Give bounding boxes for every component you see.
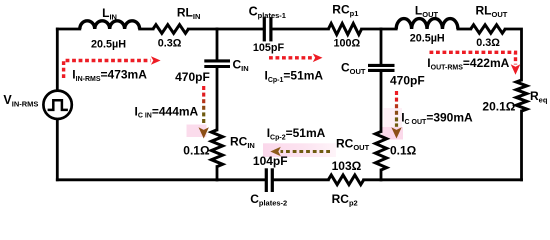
resistor RL_IN [153,25,188,34]
svg-text:20.1Ω: 20.1Ω [482,100,515,114]
arrowhead I_IN-RMS [151,56,161,65]
wire RC_IN to bottom rail [216,167,219,180]
wire between L_IN and RL_IN [140,28,153,31]
wire RL_IN to C_plates-1 (through node A) [188,28,262,31]
svg-text:470pF: 470pF [390,74,425,88]
svg-text:0.1Ω: 0.1Ω [390,143,417,157]
wire top rail segment 1 [57,28,80,31]
resistor R_eq [516,80,527,111]
arrowhead I_Cp-2 [270,147,281,157]
arrow I_OUT-RMS (red dashed with corner) [430,52,516,64]
svg-text:470pF: 470pF [175,70,210,84]
arrow I_Cp-2 (olive dashed, points left) [281,150,331,153]
arrow I_C OUT (red-to-olive dashed) [395,91,398,127]
svg-text:20.5µH: 20.5µH [91,38,126,50]
wire C_OUT to RC_OUT [380,72,383,132]
wire C_plates-1 to RC_p1 [273,28,329,31]
capacitor C_IN plate bottom [204,65,230,68]
junction node A (top rail / C_IN branch) [216,28,219,31]
arrowhead I_C OUT [391,127,401,138]
junction node B (top rail / C_OUT branch) [380,28,383,31]
wire node B down to C_OUT [380,29,383,64]
arrowhead I_OUT-RMS [511,64,521,75]
svg-text:104pF: 104pF [253,154,288,168]
wire L_OUT to RL_OUT [458,28,471,31]
wire C_IN to RC_IN [216,68,219,130]
capacitor C_OUT plate top [368,64,395,67]
capacitor C_plates-2 plate right [271,168,274,192]
svg-text:100Ω: 100Ω [334,38,361,50]
junction RC_OUT / bottom rail [380,178,383,181]
svg-text:103Ω: 103Ω [332,159,362,173]
resistor RC_p2 [328,175,363,185]
source V_IN-RMS pulse symbol [48,100,68,110]
capacitor C_plates-1 plate right [269,17,272,41]
capacitor C_plates-1 plate left [263,17,266,41]
svg-text:0.3Ω: 0.3Ω [476,37,500,49]
wire RC_p2 to right corner [364,178,522,181]
wire RC_OUT to bottom rail [380,170,383,180]
svg-text:0.1Ω: 0.1Ω [183,143,210,157]
svg-text:20.5µH: 20.5µH [410,32,445,44]
arrow I_Cp-1 (red dashed) [269,56,313,59]
wire bottom rail segment 1 [57,178,264,181]
wire R_eq to bottom rail [520,111,523,180]
junction RC_IN / bottom rail [216,178,219,181]
wire left vertical bottom (source to bottom rail) [56,120,59,179]
resistor RC_IN [211,130,222,167]
resistor RL_OUT [471,25,506,33]
wire C_plates-2 to RC_p2 [274,178,328,181]
wire node A down to C_IN [216,29,219,60]
inductor L_IN [80,21,140,29]
highlight behind I_C OUT arrow [384,108,403,127]
capacitor C_IN plate top [204,59,230,62]
resistor RC_OUT [375,132,386,171]
resistor RC_p1 [328,24,361,35]
wire RL_OUT to right corner, down to R_eq [505,29,521,80]
arrowhead I_Cp-1 [313,54,323,63]
arrowhead I_C IN [199,127,209,138]
svg-text:105pF: 105pF [253,42,285,54]
highlight behind I_C IN arrow [187,125,207,138]
capacitor C_OUT plate bottom [368,69,395,72]
svg-text:0.3Ω: 0.3Ω [158,37,182,49]
capacitor C_plates-2 plate left [265,168,268,192]
inductor L_OUT [396,19,458,29]
wire left vertical top (source to top rail) [56,29,59,89]
highlight behind I_Cp-2 arrow [263,143,336,157]
wire RC_p1 to L_OUT (through node B) [362,28,397,31]
arrow I_IN-RMS (red dashed L-shape) [64,61,151,79]
arrow I_C IN (red-to-olive dashed) [202,86,205,123]
source V_IN-RMS circle [43,91,71,119]
